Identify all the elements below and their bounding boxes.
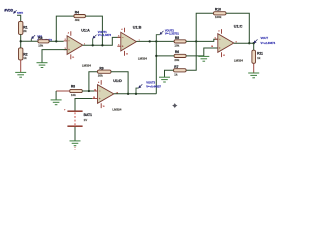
ground under R7 — [159, 77, 170, 82]
probe VOUT3 — [139, 80, 162, 88]
node R6 on vertical — [155, 55, 157, 57]
svg-text:VOUT3: VOUT3 — [146, 80, 155, 84]
node on U1:B output — [149, 40, 151, 42]
node probe tap on U1:A output — [92, 44, 94, 46]
probe VOUT — [254, 36, 276, 45]
svg-text:U1:A: U1:A — [81, 29, 90, 33]
resistor R10 — [214, 8, 227, 20]
resistor R1 — [19, 21, 28, 34]
svg-text:R8: R8 — [71, 85, 75, 89]
svg-text:11: 11 — [103, 106, 105, 108]
node R9 tap at - input — [88, 90, 90, 92]
svg-text:LM324: LM324 — [234, 58, 243, 62]
wire U1:C output to R11/probe — [234, 42, 254, 44]
wire U1:D output to long vertical — [114, 93, 157, 95]
wire R11 to ground — [253, 63, 255, 73]
resistor R9 — [98, 67, 112, 78]
wire node to R11 — [253, 43, 255, 50]
svg-text:40k: 40k — [75, 18, 80, 22]
wire R8 right to U1:D - input — [82, 90, 94, 92]
resistor R11 — [252, 50, 263, 63]
node R10 leg on output — [248, 42, 250, 44]
svg-text:R9: R9 — [99, 67, 103, 71]
probe VOUT1 stub — [92, 39, 94, 46]
resistor R3 — [38, 36, 49, 47]
resistor R7 — [174, 65, 187, 76]
svg-text:R7: R7 — [174, 65, 178, 69]
svg-text:R5: R5 — [175, 36, 179, 40]
probe VOUT3 elbow — [136, 88, 139, 94]
svg-text:R10: R10 — [215, 8, 221, 12]
op-amp U1:D — [92, 79, 122, 111]
wire R1 to node / node to R2 — [20, 34, 22, 48]
node probe tap on output — [135, 93, 137, 95]
svg-text:#VDD: #VDD — [4, 9, 13, 13]
wire R2 to ground — [20, 60, 22, 73]
svg-text:1k: 1k — [174, 72, 178, 76]
svg-text:LM324: LM324 — [112, 107, 121, 111]
wire R4 right loop to U1:A output — [86, 16, 103, 45]
power terminal #VDD — [4, 9, 23, 15]
resistor R5 — [174, 36, 186, 48]
ground at U1:A + input — [37, 63, 48, 68]
battery BAT1 — [64, 109, 92, 127]
wire R6 left to long vertical — [156, 55, 174, 57]
node divider junction — [20, 40, 22, 42]
ground under R2 — [15, 72, 26, 77]
wire R6 right to U1:C + input vertical — [186, 55, 204, 57]
svg-text:U1:D: U1:D — [113, 79, 122, 83]
wire U1:A + input to ground — [42, 50, 67, 63]
svg-text:V=+2.43374: V=+2.43374 — [261, 41, 276, 45]
ground under R11 — [248, 73, 259, 78]
wire R10 right loop to U1:C output — [226, 13, 249, 43]
wire node to R3 — [21, 40, 38, 42]
svg-text:10k: 10k — [174, 44, 179, 48]
wire R10 left loop — [196, 13, 213, 41]
svg-text:VOUT2: VOUT2 — [165, 28, 174, 32]
resistor R4 — [74, 11, 86, 22]
wire R9 right loop to U1:D output — [111, 72, 128, 94]
wire R4 left loop — [56, 16, 74, 41]
node R4 tap junction — [55, 40, 57, 42]
svg-text:V=+1.3373: V=+1.3373 — [98, 33, 112, 37]
wire R7 left to ground — [165, 70, 174, 77]
wire stub below battery ground — [74, 147, 76, 150]
origin marker — [172, 103, 177, 108]
svg-text:R4: R4 — [75, 11, 79, 15]
node output junction — [253, 42, 255, 44]
svg-text:BAT1: BAT1 — [84, 113, 93, 117]
wire BAT1 to ground — [74, 127, 76, 141]
wire R3 to U1:A inverting input — [49, 40, 64, 42]
probe VOUT1 — [93, 30, 111, 38]
probe VD — [32, 35, 53, 42]
resistor R8 — [70, 85, 83, 98]
svg-text:11: 11 — [126, 54, 128, 56]
wire U1:A output to U1:B - input — [83, 37, 121, 45]
wire R9 left loop — [89, 72, 98, 91]
svg-text:R3: R3 — [38, 36, 42, 40]
svg-text:100k: 100k — [215, 15, 222, 19]
svg-text:1V: 1V — [84, 118, 88, 122]
node R10/R7 tap — [195, 40, 197, 42]
svg-text:1k: 1k — [23, 56, 27, 60]
svg-text:6: 6 — [118, 36, 119, 38]
wire U1:C + input to ground — [204, 48, 218, 56]
svg-text:LM324: LM324 — [82, 63, 91, 67]
probe VOUT2 elbow — [156, 35, 159, 42]
wire R8 left to ground — [56, 90, 70, 92]
svg-text:0.88673: 0.88673 — [17, 13, 23, 15]
svg-text:R6: R6 — [175, 50, 179, 54]
ground under R8 — [51, 100, 62, 105]
node R9 leg on output — [127, 93, 129, 95]
svg-text:R11: R11 — [257, 52, 263, 56]
svg-text:20k: 20k — [98, 73, 103, 77]
svg-text:20k: 20k — [174, 58, 179, 62]
svg-text:11: 11 — [72, 57, 74, 59]
svg-text:11: 11 — [223, 55, 225, 57]
svg-text:2: 2 — [65, 39, 66, 41]
op-amp U1:A — [64, 29, 92, 68]
svg-text:5: 5 — [118, 44, 119, 46]
node vertical tap junction — [155, 40, 157, 42]
svg-text:V=-1.33731: V=-1.33731 — [165, 32, 179, 36]
svg-text:LM324: LM324 — [138, 57, 147, 61]
svg-text:VOUT: VOUT — [261, 36, 269, 40]
wire VDD terminal to R1 — [17, 15, 21, 21]
op-amp U1:B — [117, 25, 147, 60]
svg-text:2k: 2k — [23, 29, 27, 33]
svg-text:V=+0.44337: V=+0.44337 — [146, 84, 161, 88]
wire node down to R7 — [186, 41, 196, 70]
svg-text:1k: 1k — [257, 56, 261, 60]
op-amp U1:C — [211, 25, 243, 63]
wire long vertical U1:B output to U1:D output — [155, 41, 157, 93]
resistor R2 — [19, 48, 28, 60]
probe VD stub — [30, 39, 32, 41]
svg-text:U1:C: U1:C — [234, 25, 243, 29]
node R4 leg junction — [101, 44, 103, 46]
wire R5 to U1:C - input — [186, 39, 218, 41]
svg-text:10k: 10k — [38, 43, 43, 47]
ground under BAT1 — [70, 141, 81, 146]
svg-text:10: 10 — [211, 46, 213, 48]
resistor R6 — [174, 50, 186, 62]
wire U1:D + input to BAT1 — [75, 99, 92, 111]
probe VOUT2 — [160, 28, 179, 35]
wire U1:B output to R5 — [136, 40, 174, 42]
ground at U1:C + input — [198, 56, 209, 61]
svg-text:U1:B: U1:B — [133, 25, 142, 29]
svg-text:12: 12 — [93, 97, 95, 99]
svg-text:10k: 10k — [71, 93, 76, 97]
svg-text:9: 9 — [215, 37, 216, 39]
